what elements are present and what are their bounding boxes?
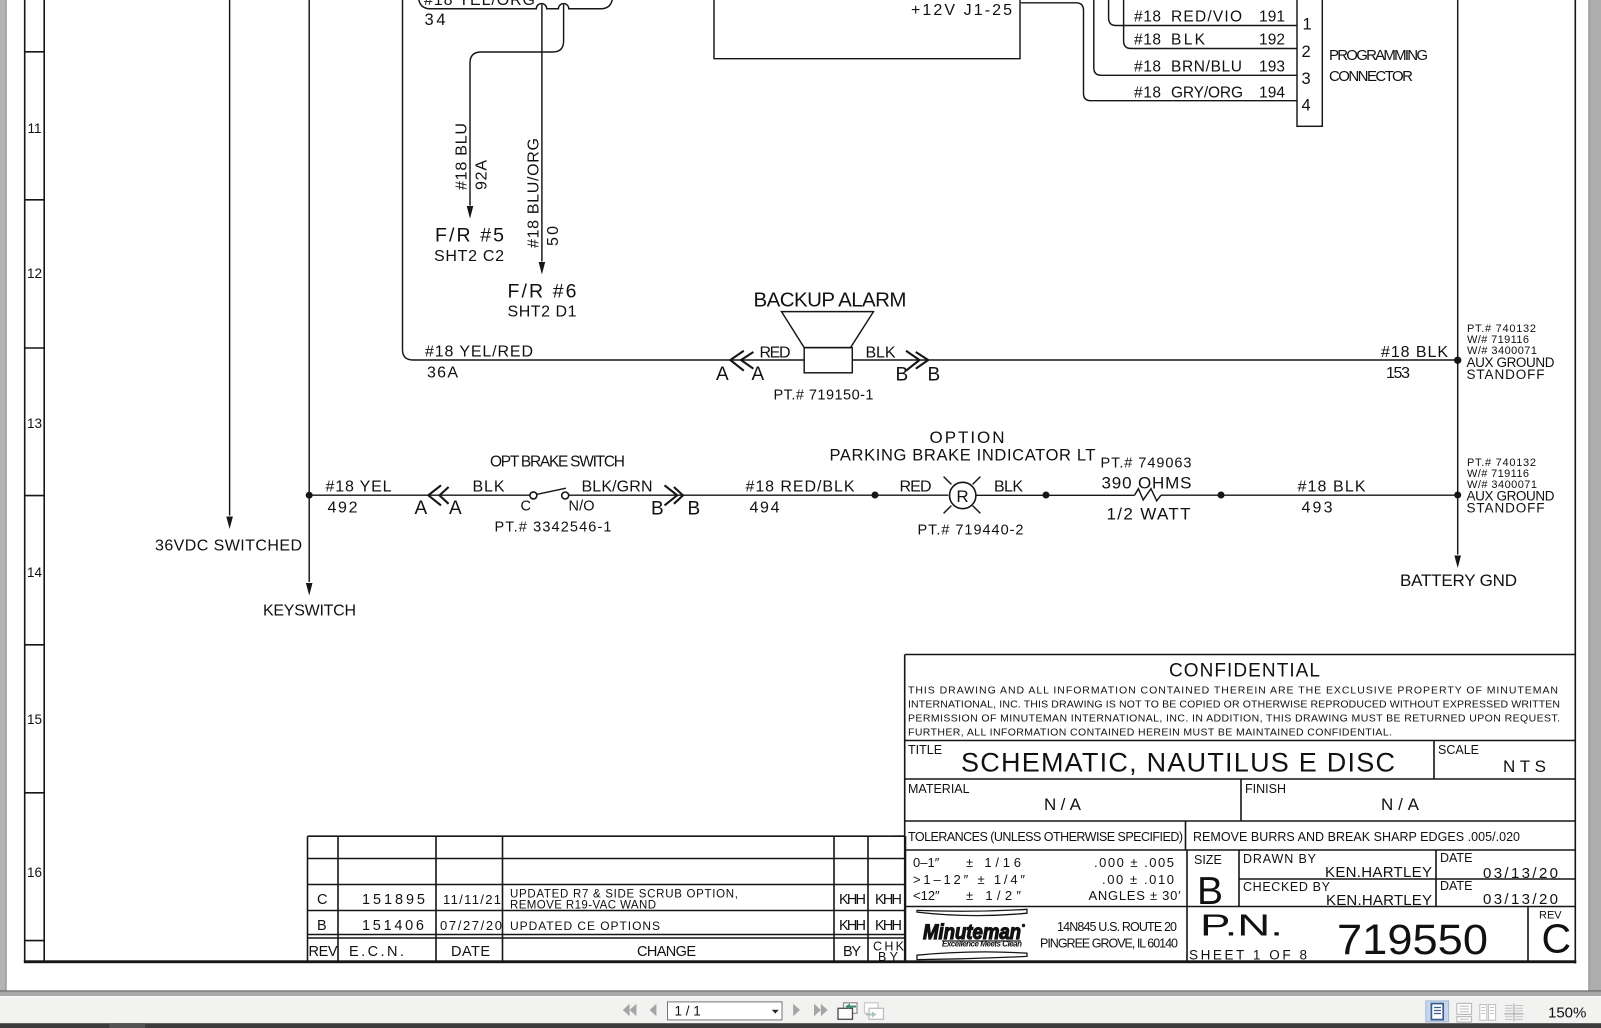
svg-text:3: 3 — [1302, 70, 1311, 88]
svg-text:SCALE: SCALE — [1438, 743, 1479, 757]
svg-text:KHH: KHH — [839, 918, 866, 934]
wire #18 BLK 153 — [852, 359, 1457, 361]
svg-text:#18: #18 — [1134, 32, 1161, 49]
svg-text:#18: #18 — [1134, 58, 1161, 75]
wire 194 #18 GRY/ORG (from box to connector pin 4) — [1021, 3, 1297, 101]
svg-text:BLK: BLK — [866, 345, 896, 362]
svg-text:SHT2 C2: SHT2 C2 — [434, 248, 504, 265]
svg-text:#18 YEL/ORG: #18 YEL/ORG — [424, 0, 535, 9]
minuteman logo — [917, 909, 1027, 915]
svg-text:C: C — [1541, 916, 1571, 962]
svg-text:PINGREE GROVE, IL 60140: PINGREE GROVE, IL 60140 — [1040, 937, 1178, 951]
wire 192 #18 BLK (to pin 2) — [1124, 0, 1297, 49]
svg-text:193: 193 — [1259, 58, 1285, 75]
svg-text:PROGRAMMING: PROGRAMMING — [1329, 47, 1428, 64]
svg-text:C: C — [521, 499, 531, 515]
svg-text:BLK: BLK — [473, 479, 505, 496]
svg-text:BLK/GRN: BLK/GRN — [582, 479, 653, 496]
svg-text:2: 2 — [1302, 43, 1311, 61]
svg-text:MATERIAL: MATERIAL — [908, 782, 970, 796]
svg-text:<12″: <12″ — [913, 888, 940, 903]
wire #18 YEL 492 — [309, 494, 530, 496]
layout icon facing — [1480, 1005, 1496, 1021]
svg-text:REMOVE R19-VAC WAND: REMOVE R19-VAC WAND — [510, 900, 656, 912]
zone numbers 11-16 — [27, 121, 43, 880]
svg-text:FURTHER, ALL INFORMATION CONTA: FURTHER, ALL INFORMATION CONTAINED HEREI… — [908, 727, 1392, 739]
svg-text:OPTION: OPTION — [930, 428, 1005, 447]
svg-text:KHH: KHH — [839, 892, 866, 908]
svg-text:36VDC SWITCHED: 36VDC SWITCHED — [155, 538, 302, 555]
svg-text:PT.# 749063: PT.# 749063 — [1101, 456, 1192, 472]
svg-text:C: C — [317, 892, 327, 908]
svg-text:CONFIDENTIAL: CONFIDENTIAL — [1169, 661, 1320, 682]
svg-text:SIZE: SIZE — [1194, 853, 1222, 867]
layout icon single page (selected) — [1426, 1001, 1449, 1022]
svg-text:#18 RED/BLK: #18 RED/BLK — [746, 479, 855, 496]
svg-text:DATE: DATE — [1440, 879, 1472, 893]
svg-text:07/27/20: 07/27/20 — [440, 918, 502, 933]
page number box — [668, 1002, 783, 1020]
svg-text:#18 BLU/ORG: #18 BLU/ORG — [526, 138, 543, 248]
prev view icon — [838, 1003, 857, 1020]
svg-text:DRAWN BY: DRAWN BY — [1243, 852, 1317, 866]
svg-text:NTS: NTS — [1503, 757, 1546, 776]
connector B-B (backup alarm) — [906, 351, 928, 371]
svg-text:BRN/BLU: BRN/BLU — [1171, 58, 1242, 75]
svg-text:16: 16 — [27, 865, 42, 880]
connector B-B (brake switch) — [665, 485, 684, 505]
svg-text:PT.# 3342546-1: PT.# 3342546-1 — [495, 520, 612, 536]
svg-text:#18: #18 — [1134, 85, 1161, 102]
wire 191 #18 RED/VIO (to pin 1) — [1109, 0, 1297, 26]
svg-text:INTERNATIONAL, INC. THIS DRAWI: INTERNATIONAL, INC. THIS DRAWING IS NOT … — [908, 699, 1560, 711]
svg-text:N/A: N/A — [1044, 795, 1082, 814]
svg-text:#18 BLU: #18 BLU — [454, 123, 471, 190]
svg-text:390 OHMS: 390 OHMS — [1102, 474, 1192, 493]
svg-text:CHANGE: CHANGE — [637, 944, 696, 960]
wire #18 YEL/RED 36A (backup alarm feed) — [403, 0, 805, 360]
wire keyswitch feed — [308, 0, 310, 582]
svg-text:+12V J1-25: +12V J1-25 — [911, 2, 1012, 19]
wire to resistor — [976, 494, 1135, 496]
svg-text:A: A — [752, 364, 765, 385]
svg-text:RED: RED — [900, 479, 932, 496]
svg-text:492: 492 — [328, 500, 358, 517]
svg-text:493: 493 — [1302, 500, 1333, 517]
svg-text:11/11/21: 11/11/21 — [443, 892, 501, 907]
svg-text:1 / 1: 1 / 1 — [675, 1004, 701, 1019]
junction node 492 — [306, 492, 313, 499]
svg-text:4: 4 — [1302, 97, 1311, 115]
svg-text:ANGLES ± 30′: ANGLES ± 30′ — [1089, 888, 1182, 903]
wire #18 BLU/ORG 50 (to F/R #6) — [541, 5, 543, 262]
svg-text:Excellence Meets Clean: Excellence Meets Clean — [942, 940, 1022, 949]
svg-text:RED/VIO: RED/VIO — [1171, 9, 1242, 26]
wire #18 BLK 493 — [1161, 494, 1458, 496]
nav next — [793, 1004, 800, 1016]
programming connector — [1297, 0, 1322, 126]
nav first page — [623, 1004, 828, 1016]
svg-text:BLK: BLK — [1171, 32, 1206, 49]
svg-text:#18: #18 — [1134, 9, 1161, 26]
svg-text:153: 153 — [1386, 365, 1410, 382]
svg-text:N/O: N/O — [569, 499, 595, 515]
svg-text:92A: 92A — [474, 160, 491, 190]
wire 193 #18 BRN/BLU (to pin 3) — [1094, 0, 1297, 75]
junction dot — [872, 492, 879, 499]
nav prev — [650, 1004, 657, 1016]
wire label bubble "#18 YEL/ORG" — [418, 0, 613, 9]
svg-text:PT.# 719150-1: PT.# 719150-1 — [774, 388, 874, 404]
junction dot — [1043, 492, 1050, 499]
svg-text:KHH: KHH — [875, 918, 902, 934]
svg-text:11: 11 — [27, 121, 41, 136]
svg-text:14N845 U.S. ROUTE 20: 14N845 U.S. ROUTE 20 — [1057, 920, 1177, 934]
svg-text:12: 12 — [27, 266, 42, 281]
pdf viewer toolbar — [0, 996, 1601, 1023]
svg-text:GRY/ORG: GRY/ORG — [1171, 85, 1243, 102]
svg-text:191: 191 — [1259, 9, 1285, 26]
svg-text:BATTERY GND: BATTERY GND — [1400, 571, 1517, 590]
svg-text:KEN.HARTLEY: KEN.HARTLEY — [1325, 864, 1432, 881]
svg-text:.000 ± .005: .000 ± .005 — [1094, 855, 1174, 870]
wire BLK/GRN — [569, 494, 949, 496]
svg-text:A: A — [415, 498, 428, 519]
svg-text:B: B — [317, 918, 327, 934]
layout icon continuous facing — [1505, 1004, 1524, 1022]
svg-text:SHEET 1 OF 8: SHEET 1 OF 8 — [1189, 948, 1307, 963]
svg-text:RED: RED — [760, 345, 791, 362]
svg-text:CONNECTOR: CONNECTOR — [1329, 68, 1413, 85]
svg-text:UPDATED CE OPTIONS: UPDATED CE OPTIONS — [510, 919, 660, 933]
svg-text:OPT BRAKE SWITCH: OPT BRAKE SWITCH — [490, 454, 625, 471]
svg-text:PARKING BRAKE INDICATOR LT: PARKING BRAKE INDICATOR LT — [830, 447, 1096, 465]
svg-text:#18 BLK: #18 BLK — [1381, 344, 1448, 361]
svg-text:1/2 WATT: 1/2 WATT — [1107, 505, 1191, 524]
svg-text:KHH: KHH — [875, 892, 902, 908]
svg-text:REMOVE BURRS AND BREAK SHARP E: REMOVE BURRS AND BREAK SHARP EDGES .005/… — [1193, 830, 1520, 844]
backup alarm speaker — [782, 312, 874, 348]
svg-text:CHECKED BY: CHECKED BY — [1243, 880, 1331, 894]
svg-text:.00 ± .010: .00 ± .010 — [1102, 872, 1174, 887]
svg-text:14: 14 — [27, 565, 43, 580]
svg-text:TOLERANCES (UNLESS OTHERWISE S: TOLERANCES (UNLESS OTHERWISE SPECIFIED) — [908, 830, 1183, 844]
connector A-A (brake switch) — [428, 485, 448, 505]
svg-text:SHT2 D1: SHT2 D1 — [508, 304, 577, 321]
svg-text:KEYSWITCH: KEYSWITCH — [263, 603, 356, 620]
svg-text:R: R — [956, 487, 968, 506]
svg-text:13: 13 — [27, 416, 42, 431]
svg-text:THIS DRAWING AND ALL INFORMATI: THIS DRAWING AND ALL INFORMATION CONTAIN… — [908, 685, 1558, 697]
svg-text:BACKUP ALARM: BACKUP ALARM — [754, 289, 907, 312]
svg-text:STANDOFF: STANDOFF — [1467, 367, 1545, 382]
svg-text:36A: 36A — [427, 365, 458, 382]
svg-text:#18 YEL: #18 YEL — [326, 479, 392, 496]
svg-text:BY: BY — [843, 944, 861, 960]
connector A-A (backup alarm) — [730, 351, 753, 371]
svg-text:SCHEMATIC, NAUTILUS E DISC: SCHEMATIC, NAUTILUS E DISC — [961, 748, 1395, 778]
junction aux ground standoff 2 — [1454, 492, 1461, 499]
layout icon continuous — [1457, 1003, 1472, 1022]
svg-text:A: A — [449, 498, 462, 519]
revision table — [308, 836, 906, 961]
svg-text:PERMISSION OF MINUTEMAN INTERN: PERMISSION OF MINUTEMAN INTERNATIONAL, I… — [908, 713, 1560, 725]
svg-text:0–1″: 0–1″ — [913, 855, 940, 870]
wire battery gnd — [1457, 0, 1459, 555]
wire #18 BLU 92A (to F/R #5) — [470, 5, 564, 206]
junction dot — [1218, 492, 1225, 499]
svg-text:B: B — [896, 365, 909, 386]
title block frame — [905, 655, 1576, 962]
svg-text:REV: REV — [309, 944, 338, 960]
svg-text:DATE: DATE — [451, 944, 490, 960]
svg-text:FINISH: FINISH — [1245, 782, 1286, 796]
svg-text:1: 1 — [1303, 16, 1312, 34]
svg-text:E.C.N.: E.C.N. — [349, 944, 404, 960]
nav last — [814, 1004, 821, 1016]
svg-text:#18 BLK: #18 BLK — [1298, 479, 1366, 496]
svg-text:#18 YEL/RED: #18 YEL/RED — [425, 344, 533, 361]
svg-text:P.N.: P.N. — [1200, 908, 1283, 943]
svg-text:DATE: DATE — [1440, 851, 1472, 865]
svg-text:TITLE: TITLE — [908, 743, 942, 757]
svg-text:F/R #6: F/R #6 — [508, 281, 577, 303]
svg-text:B: B — [651, 499, 664, 520]
controller box +12V J1-25 — [714, 0, 1020, 59]
svg-text:B: B — [928, 365, 941, 386]
svg-text:15: 15 — [27, 712, 42, 727]
svg-text:BLK: BLK — [994, 479, 1023, 496]
svg-text:719550: 719550 — [1337, 916, 1488, 964]
svg-text:494: 494 — [750, 500, 780, 517]
svg-text:STANDOFF: STANDOFF — [1467, 501, 1545, 516]
svg-text:F/R #5: F/R #5 — [435, 225, 504, 247]
next view icon (disabled) — [865, 1003, 884, 1020]
wire 36VDC SWITCHED — [229, 0, 231, 516]
svg-text:N/A: N/A — [1381, 795, 1420, 814]
svg-text:194: 194 — [1259, 85, 1285, 102]
svg-text:KEN.HARTLEY: KEN.HARTLEY — [1326, 892, 1432, 909]
junction aux ground standoff 1 — [1454, 357, 1461, 364]
svg-text:B: B — [688, 499, 701, 520]
svg-text:192: 192 — [1259, 32, 1285, 49]
svg-text:A: A — [716, 364, 729, 385]
svg-text:150%: 150% — [1548, 1005, 1586, 1022]
svg-text:PT.# 719440-2: PT.# 719440-2 — [918, 523, 1024, 539]
